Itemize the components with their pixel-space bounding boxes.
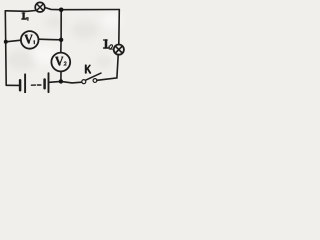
junction node middle: [59, 38, 63, 42]
wire middle vertical upper: [60, 10, 62, 40]
wire right vertical lower: [97, 55, 118, 80]
junction node left: [4, 40, 8, 44]
switch K left contact: [82, 80, 86, 84]
wire left vertical: [4, 11, 7, 85]
wire top-left segment: [5, 10, 35, 13]
lamp L1: [35, 2, 45, 12]
voltmeter V1: [21, 31, 39, 49]
label V1 : subscript 1: [33, 41, 36, 44]
switch K right contact: [93, 79, 97, 83]
battery cell2 plus plate: [48, 73, 50, 92]
wire right vertical upper: [118, 10, 121, 45]
wire bottom-left to battery: [6, 84, 19, 86]
label V1 : letter V: [25, 35, 32, 43]
wire V1 left: [6, 40, 21, 42]
label L2 : letter L: [104, 40, 110, 48]
label K: [86, 65, 90, 73]
wire bottom between switch and junction: [61, 81, 82, 83]
wire middle vertical mid: [60, 40, 62, 53]
label V2 : letter V: [56, 57, 63, 65]
wire top-right segment: [61, 9, 119, 11]
switch K lever: [85, 73, 101, 80]
wire battery to junction: [49, 80, 61, 83]
junction node bottom: [59, 79, 63, 83]
battery dash 1: [31, 84, 35, 86]
wire middle vertical lower: [60, 72, 62, 82]
label L1 : letter L: [22, 13, 26, 19]
lamp L2: [114, 45, 124, 55]
battery dash 2: [38, 84, 41, 86]
label L2 : subscript 2: [110, 45, 113, 49]
label L1 : subscript 1: [26, 18, 29, 21]
wire V1 right: [39, 38, 62, 41]
battery cell2 minus plate: [43, 80, 46, 89]
junction node top: [59, 8, 64, 13]
wire top-middle segment: [45, 8, 61, 10]
battery cell1 minus plate: [19, 80, 22, 90]
battery cell1 plus plate: [24, 74, 26, 93]
voltmeter V2: [51, 53, 70, 72]
label V2 : subscript 2: [64, 62, 66, 65]
